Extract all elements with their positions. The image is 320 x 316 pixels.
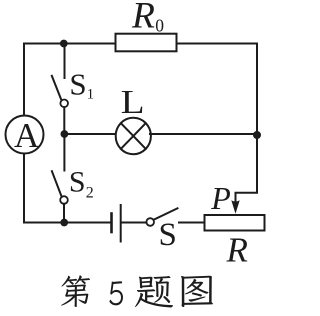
wire top-right segment — [177, 43, 258, 45]
svg-text:A: A — [14, 116, 40, 155]
svg-text:1: 1 — [87, 86, 95, 102]
wire top-left segment — [24, 43, 116, 45]
wire switch S to rheostat R — [179, 222, 204, 224]
wire middle branch left (node to lamp) — [64, 133, 115, 135]
battery cell — [112, 205, 121, 242]
svg-text:R: R — [226, 231, 248, 270]
slider arrowhead P — [231, 200, 239, 214]
svg-text:S: S — [69, 67, 86, 102]
resistor R0 — [116, 34, 177, 52]
caption character 题 — [135, 276, 173, 308]
label S2 — [69, 165, 94, 201]
wire middle branch right (lamp to right rail) — [150, 133, 257, 135]
caption character 图 — [181, 276, 213, 307]
svg-text:R: R — [131, 0, 155, 37]
svg-text:L: L — [121, 84, 145, 121]
svg-text:2: 2 — [86, 184, 94, 201]
caption character 第 — [61, 275, 90, 307]
junction node: bottom of S2 branch — [60, 219, 68, 227]
rheostat R body — [205, 215, 265, 231]
wire battery to switch S — [122, 222, 147, 224]
rheostat slider wire from right rail — [236, 135, 258, 202]
junction node: top of S1 branch — [60, 40, 68, 48]
wire right rail — [256, 44, 258, 136]
ammeter A — [6, 116, 44, 156]
switch S1 — [52, 44, 68, 135]
svg-text:S: S — [69, 165, 86, 198]
label S1 — [69, 67, 94, 103]
wire left rail — [23, 44, 25, 223]
junction node: right rail / lamp branch — [253, 131, 261, 139]
caption character 5 — [109, 281, 122, 305]
svg-text:S: S — [159, 217, 177, 253]
lamp L — [116, 118, 151, 154]
junction node: middle (S1/S2/lamp) — [61, 130, 69, 138]
switch S — [146, 208, 177, 226]
switch S2 — [52, 134, 68, 223]
wire bottom-left segment — [24, 222, 110, 224]
svg-text:0: 0 — [155, 16, 164, 36]
svg-text:P: P — [210, 180, 231, 216]
label R0 — [131, 0, 164, 37]
